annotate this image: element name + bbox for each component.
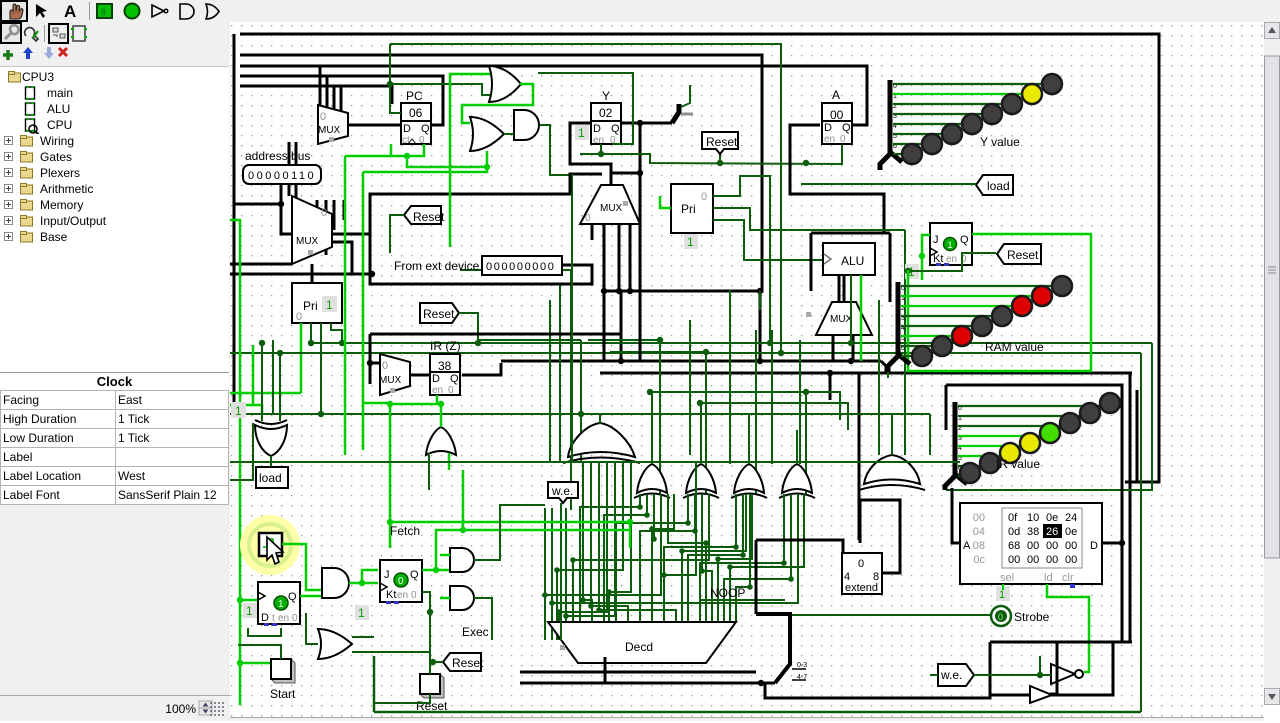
svg-text:00: 00 bbox=[830, 108, 844, 122]
label Reset (Kt1) bbox=[997, 244, 1041, 264]
wire Yv bit0 bbox=[893, 83, 1042, 85]
row: add/up/down/remove bbox=[3, 50, 13, 60]
wire Yv bit4 bbox=[893, 123, 962, 125]
wire MUX4 inputs bbox=[833, 335, 853, 361]
wire From-ext frame bbox=[370, 174, 602, 284]
wire addr to MUX2 bbox=[281, 204, 292, 234]
svg-text:1: 1 bbox=[326, 298, 333, 312]
wire frame drop bbox=[569, 173, 572, 194]
junction bbox=[438, 401, 444, 407]
wire bright x345 top bbox=[345, 155, 391, 158]
svg-text:Reset: Reset bbox=[706, 135, 738, 149]
wire IRv bit6 bbox=[958, 465, 980, 467]
wire drop j bbox=[705, 352, 707, 494]
wire drop f bbox=[878, 300, 880, 455]
priority Pri1 bbox=[292, 283, 342, 323]
svg-text:0: 0 bbox=[382, 360, 388, 372]
pin address bus value bbox=[243, 165, 321, 184]
wire dg x390 bbox=[390, 44, 401, 113]
wire load tag in bbox=[801, 183, 976, 185]
svg-text:1: 1 bbox=[358, 606, 365, 620]
wire RAMv bit3 bbox=[901, 315, 992, 317]
LED RAMval4 bbox=[972, 316, 992, 336]
junction bbox=[637, 504, 643, 510]
wire IRv bit3 bbox=[958, 435, 1040, 437]
junction bbox=[430, 659, 436, 665]
wire noop bbox=[700, 599, 785, 601]
svg-text:Q: Q bbox=[288, 591, 297, 603]
wire xg out bbox=[270, 456, 272, 467]
pin value 1 at Y.en bbox=[575, 125, 589, 140]
wire mrow1 bbox=[668, 494, 706, 622]
svg-text:A: A bbox=[832, 88, 840, 102]
LED RAMval7 bbox=[912, 346, 932, 366]
wire buffer box bbox=[990, 642, 1132, 695]
svg-text:D: D bbox=[1090, 540, 1098, 552]
label load box bbox=[256, 467, 288, 488]
junction bbox=[767, 340, 773, 346]
svg-text:Q: Q bbox=[960, 234, 969, 246]
wire RAMv tail bbox=[888, 356, 898, 372]
svg-text:D: D bbox=[593, 123, 601, 135]
LED Yval2 bbox=[1002, 94, 1022, 114]
junction bbox=[367, 360, 373, 366]
svg-text:24: 24 bbox=[1065, 512, 1077, 524]
junction bbox=[433, 567, 439, 573]
svg-text:04: 04 bbox=[973, 526, 985, 538]
wire or3 in1 bbox=[352, 636, 374, 638]
junction bbox=[563, 613, 569, 619]
tool edit (arrow) bbox=[36, 4, 47, 18]
wire bus b4 bbox=[240, 76, 443, 125]
wire bundle x571 bbox=[570, 270, 572, 510]
wire and4 in bbox=[440, 597, 450, 600]
wire IRv bit5 bbox=[958, 455, 1000, 457]
wire and2 to kt2 bbox=[362, 582, 378, 585]
svg-text:IR value: IR value bbox=[996, 457, 1040, 471]
junction bbox=[427, 609, 433, 615]
svg-text:Strobe: Strobe bbox=[1014, 610, 1050, 624]
junction bbox=[637, 120, 643, 126]
svg-text:en: en bbox=[397, 590, 408, 601]
tool OR gate bbox=[206, 4, 219, 19]
tool output pin bbox=[125, 4, 140, 19]
wire GC out bbox=[700, 403, 702, 464]
wire bottom black h bbox=[520, 671, 756, 674]
wire dff d feed bbox=[240, 599, 258, 602]
junction bbox=[647, 389, 653, 395]
LED RAMval2 bbox=[1012, 296, 1032, 316]
wire bottom run bbox=[765, 683, 990, 698]
memory RAM bbox=[960, 503, 1102, 584]
svg-text:D: D bbox=[432, 373, 440, 385]
wire GB out bbox=[651, 392, 653, 464]
wire right col 1130 bbox=[1113, 373, 1130, 642]
LED Yval7 bbox=[902, 144, 922, 164]
wire stairx20 bbox=[609, 462, 631, 640]
label Reset (IR) bbox=[420, 303, 459, 323]
wire reset1 stem bbox=[719, 152, 721, 163]
junction bbox=[778, 350, 784, 356]
wire MUX3 in3 bbox=[629, 224, 632, 291]
svg-text:From ext device: From ext device bbox=[394, 259, 480, 273]
wire MUX2 out bbox=[332, 233, 370, 236]
wire RAMv bit6 bbox=[901, 345, 934, 347]
svg-text:IR (Z): IR (Z) bbox=[430, 339, 461, 353]
svg-text:00: 00 bbox=[1027, 540, 1039, 552]
svg-text:Q: Q bbox=[410, 569, 419, 581]
wire kt2 to and3 bbox=[436, 569, 450, 572]
wire stair12 bbox=[702, 494, 712, 622]
svg-text:0f: 0f bbox=[1008, 512, 1018, 524]
wire Pri1 o2 bbox=[320, 323, 322, 414]
svg-text:0: 0 bbox=[858, 558, 864, 570]
wire mrow6 bbox=[664, 462, 696, 622]
svg-text:0e: 0e bbox=[1065, 526, 1077, 538]
LED IRval2 bbox=[1060, 413, 1080, 433]
junction bbox=[339, 340, 345, 346]
junction bbox=[685, 520, 691, 526]
wire bus y361 bbox=[501, 360, 881, 363]
svg-text:0: 0 bbox=[398, 576, 404, 587]
junction bbox=[651, 536, 657, 542]
wire start out bbox=[238, 645, 281, 659]
svg-text:1: 1 bbox=[687, 235, 694, 249]
junction bbox=[1037, 672, 1043, 678]
splitter IRv bbox=[955, 402, 967, 484]
wire GD out bbox=[748, 414, 750, 464]
and-gate AND4 bbox=[450, 586, 474, 610]
junction bbox=[740, 552, 746, 558]
svg-text:1: 1 bbox=[948, 240, 953, 250]
wire left v253 bbox=[252, 345, 255, 405]
svg-text:Decd: Decd bbox=[625, 640, 653, 654]
svg-text:w.e.: w.e. bbox=[551, 484, 573, 498]
wire load run bbox=[363, 167, 487, 172]
wire reset pc stem bbox=[390, 215, 404, 253]
wire stair11 bbox=[700, 494, 784, 622]
svg-text:26: 26 bbox=[1046, 526, 1058, 538]
wire wecol552 bbox=[551, 508, 553, 640]
wire clk to and bbox=[306, 570, 322, 590]
svg-text:A: A bbox=[64, 2, 76, 21]
LED IRval6 bbox=[980, 453, 1000, 473]
wire stairx19 bbox=[557, 462, 623, 640]
svg-text:0: 0 bbox=[321, 207, 327, 219]
tool input pin bbox=[97, 4, 112, 18]
alu ALU bbox=[823, 243, 875, 275]
wire clk out bbox=[282, 544, 306, 570]
svg-text:RAM value: RAM value bbox=[985, 340, 1044, 354]
wire left branch y663 bbox=[240, 662, 280, 665]
junction bbox=[570, 557, 576, 563]
LED IRval7 bbox=[960, 463, 980, 483]
register Y bbox=[591, 89, 621, 146]
wire bright x345 bbox=[344, 156, 347, 455]
svg-text:Pri: Pri bbox=[681, 202, 696, 216]
svg-text:MUX: MUX bbox=[318, 125, 341, 136]
svg-text:4-7: 4-7 bbox=[797, 674, 807, 681]
mux MUX5 bbox=[379, 354, 410, 395]
svg-text:00: 00 bbox=[1046, 554, 1058, 566]
wire Pri2 out0 bbox=[713, 176, 770, 343]
wire outer frame left bbox=[233, 34, 236, 415]
svg-text:A: A bbox=[963, 540, 971, 552]
junction bbox=[359, 580, 365, 586]
junction bbox=[404, 153, 410, 159]
svg-text:00: 00 bbox=[1027, 554, 1039, 566]
chip icon 2 bbox=[73, 26, 85, 41]
wire mux1 to mux2 a bbox=[288, 142, 291, 196]
wire we branch bbox=[1039, 656, 1041, 675]
wire ram spine feed bbox=[887, 372, 889, 378]
junction bbox=[758, 680, 764, 686]
wire row y414 drop bbox=[929, 414, 931, 455]
junction bbox=[803, 389, 809, 395]
wire resetbtn down bbox=[374, 694, 430, 703]
LED Yval4 bbox=[962, 114, 982, 134]
LED RAMval5 bbox=[952, 326, 972, 346]
wire stair4 bbox=[616, 494, 688, 622]
wire RAMv bit7 bbox=[901, 355, 918, 357]
junction bbox=[460, 527, 466, 533]
wire stair14 bbox=[736, 494, 750, 622]
wire ALU frame l bbox=[810, 233, 813, 291]
junction bbox=[627, 519, 633, 525]
xor-gate GA (wide) bbox=[563, 423, 640, 463]
wire y173 link bbox=[611, 172, 640, 175]
wire we to buffer bbox=[974, 674, 1051, 676]
project toolbar: wrench active bbox=[1, 23, 21, 43]
wire col 640 bbox=[639, 123, 642, 361]
wire drop a bbox=[759, 291, 761, 310]
svg-text:Kt: Kt bbox=[386, 589, 396, 601]
wire row y414 bbox=[581, 413, 930, 415]
wire IR in col bbox=[369, 334, 372, 384]
LED Yval3 bbox=[982, 104, 1002, 124]
tool NOT gate bbox=[152, 5, 164, 17]
LED IRval1 bbox=[1080, 403, 1100, 423]
svg-text:1: 1 bbox=[246, 604, 253, 618]
wire OR2 to AND1 bbox=[504, 133, 514, 135]
svg-text:0: 0 bbox=[585, 213, 591, 224]
and-gate AND2 bbox=[322, 568, 349, 598]
wire reset btn bbox=[429, 662, 431, 674]
register DFF bbox=[258, 582, 300, 626]
wire RAMv bit4 bbox=[901, 325, 972, 327]
wire Y en stub bbox=[600, 144, 602, 154]
pin 1 left edge bbox=[231, 402, 246, 418]
junction bbox=[237, 660, 243, 666]
svg-text:en: en bbox=[824, 134, 835, 145]
wire stair1 bbox=[580, 494, 640, 622]
junction bbox=[578, 411, 584, 417]
svg-text:MUX: MUX bbox=[600, 203, 623, 214]
or-gate GD bbox=[731, 464, 767, 498]
wire long bright vertical bbox=[362, 172, 365, 450]
probe tool bbox=[25, 28, 38, 41]
wire Yv bit2 bbox=[893, 103, 1002, 105]
wire IRv bit7 bbox=[958, 475, 964, 477]
wire bright link bbox=[363, 402, 390, 405]
wire Yv bit3 bbox=[893, 113, 982, 115]
wire row y403 bbox=[700, 403, 848, 430]
junction bbox=[596, 607, 602, 613]
svg-text:Reset: Reset bbox=[452, 656, 484, 670]
wire left in MUX2 bbox=[230, 263, 292, 266]
junction bbox=[627, 288, 633, 294]
pin 1 at Kt1 bbox=[905, 264, 919, 279]
svg-text:Q: Q bbox=[421, 123, 430, 135]
svg-text:06: 06 bbox=[409, 106, 423, 120]
wire col 830 ext bbox=[829, 373, 832, 400]
wire left bright y405 bbox=[230, 405, 262, 414]
wire extend in col bbox=[755, 540, 758, 614]
wire A.D in bbox=[790, 125, 884, 233]
wire MUX2 sel bbox=[311, 264, 314, 274]
wire MUX3 in1 bbox=[603, 224, 606, 361]
wire OR1 out to OR2 bbox=[462, 84, 533, 123]
or-gate GC bbox=[683, 464, 719, 498]
wire bundle x581 bbox=[580, 340, 582, 462]
junction bbox=[637, 170, 643, 176]
wire orir out bbox=[440, 404, 443, 427]
or-gate OR3 bbox=[318, 629, 352, 659]
svg-text:Reset: Reset bbox=[423, 307, 455, 321]
wire we in bbox=[930, 674, 938, 676]
wire outer frame top/right bbox=[240, 34, 1159, 482]
wire Yv bit1 bbox=[893, 93, 1022, 95]
label w.e. bottom bbox=[938, 664, 974, 686]
wire mrow4 bbox=[718, 494, 752, 622]
priority Pri2 bbox=[671, 184, 713, 233]
junction bbox=[549, 600, 555, 606]
svg-text:MUX: MUX bbox=[830, 314, 853, 325]
wire orir in2 bbox=[448, 453, 451, 470]
junction bbox=[318, 411, 324, 417]
wire IRv bit4 bbox=[958, 445, 1020, 447]
wire IR.Q to bus bbox=[462, 363, 501, 375]
wire reset ir out bbox=[459, 313, 478, 343]
tool AND gate bbox=[180, 4, 194, 19]
pin 1 at Pri2 bbox=[684, 234, 698, 249]
wire RAM ld bbox=[1047, 584, 1089, 672]
wire splitter2 stubs bbox=[792, 669, 806, 680]
wire RAM D out bbox=[1102, 542, 1122, 545]
svg-text:Reset: Reset bbox=[1007, 248, 1039, 262]
label Reset (PC) bbox=[404, 206, 445, 224]
wire feed i bbox=[588, 339, 660, 341]
wire stairx21 bbox=[573, 494, 709, 640]
wire ALU pin2 bbox=[850, 275, 852, 343]
wire bus b3 drop bbox=[318, 66, 320, 112]
button Start bbox=[271, 659, 295, 683]
junction bbox=[661, 572, 667, 578]
wire orir in1 bbox=[428, 453, 430, 490]
junction bbox=[703, 540, 709, 546]
wire dg y73 bbox=[538, 73, 633, 144]
wire IRv bit1 bbox=[958, 415, 1080, 417]
wire bundle x560 bbox=[559, 285, 561, 462]
wire Pri1 out bright bbox=[300, 323, 303, 393]
wire we down bbox=[560, 503, 562, 640]
wire Kt1 J in bbox=[922, 235, 930, 280]
wire MUX2 out2 bbox=[332, 242, 352, 273]
junction bbox=[848, 358, 854, 364]
register PC bbox=[401, 89, 431, 146]
wire IR box bbox=[946, 385, 1122, 486]
wire splitter feed bbox=[681, 85, 690, 107]
svg-text:MUX: MUX bbox=[296, 236, 319, 247]
svg-text:t: t bbox=[272, 613, 275, 624]
wire PC ct loop bbox=[391, 144, 424, 156]
svg-text:1: 1 bbox=[235, 404, 242, 418]
junction bbox=[387, 519, 393, 525]
wire MUX1 to PC.D bbox=[348, 124, 401, 127]
junction bbox=[649, 526, 655, 532]
wire MUX4 out bbox=[843, 275, 846, 302]
wire RAM green box bbox=[908, 234, 1091, 371]
pin 1 at RAM.sel bbox=[996, 586, 1010, 601]
wire left dg2 bbox=[230, 423, 253, 480]
svg-text:00: 00 bbox=[1065, 554, 1077, 566]
wire Yv bit7 bbox=[893, 153, 906, 155]
junction bbox=[781, 560, 787, 566]
and-gate AND1 bbox=[514, 110, 539, 140]
svg-text:0: 0 bbox=[292, 613, 298, 624]
wire row y414 left bbox=[230, 413, 581, 415]
wire RAM sel stub bbox=[1002, 584, 1004, 590]
svg-text:ALU: ALU bbox=[841, 254, 864, 268]
wire mrow5 bbox=[730, 494, 804, 622]
wire bus b4 drop bbox=[318, 76, 327, 119]
mux MUX3 bbox=[580, 185, 640, 224]
svg-text:Reset: Reset bbox=[413, 210, 445, 224]
wire wecol566 bbox=[565, 508, 567, 640]
wire and3 in bbox=[629, 522, 632, 548]
extender extend bbox=[842, 553, 882, 594]
svg-text:0: 0 bbox=[448, 385, 454, 396]
wire GE out bbox=[796, 430, 798, 464]
junction bbox=[747, 584, 753, 590]
wire drop cont bbox=[326, 200, 344, 255]
wire ALU pin3 bbox=[860, 275, 863, 361]
wire right col 1152 bbox=[946, 343, 1152, 490]
LED RAMval6 bbox=[932, 336, 952, 356]
wire long row y462 bbox=[230, 461, 960, 463]
wire bus b5 drop bbox=[318, 86, 334, 126]
junction bbox=[715, 556, 721, 562]
svg-text:0c: 0c bbox=[973, 554, 985, 566]
LED Yval5 bbox=[942, 124, 962, 144]
junction bbox=[580, 597, 586, 603]
wire ALU frame r bbox=[889, 233, 892, 302]
wire addr left bbox=[234, 203, 281, 206]
junction bbox=[606, 589, 612, 595]
wire feed j bbox=[610, 351, 706, 353]
svg-text:D: D bbox=[824, 122, 832, 134]
junction bbox=[644, 512, 650, 518]
LED Yval0 bbox=[1042, 74, 1062, 94]
wire and2 branch bbox=[362, 570, 378, 583]
svg-text:Q: Q bbox=[842, 122, 851, 134]
wire RAMv bit1 bbox=[901, 295, 1032, 297]
svg-text:1: 1 bbox=[578, 126, 585, 140]
button Reset bbox=[420, 674, 444, 698]
svg-text:w.e.: w.e. bbox=[940, 668, 962, 682]
svg-text:1: 1 bbox=[999, 589, 1005, 601]
xor-gate XG1 bbox=[255, 420, 287, 456]
